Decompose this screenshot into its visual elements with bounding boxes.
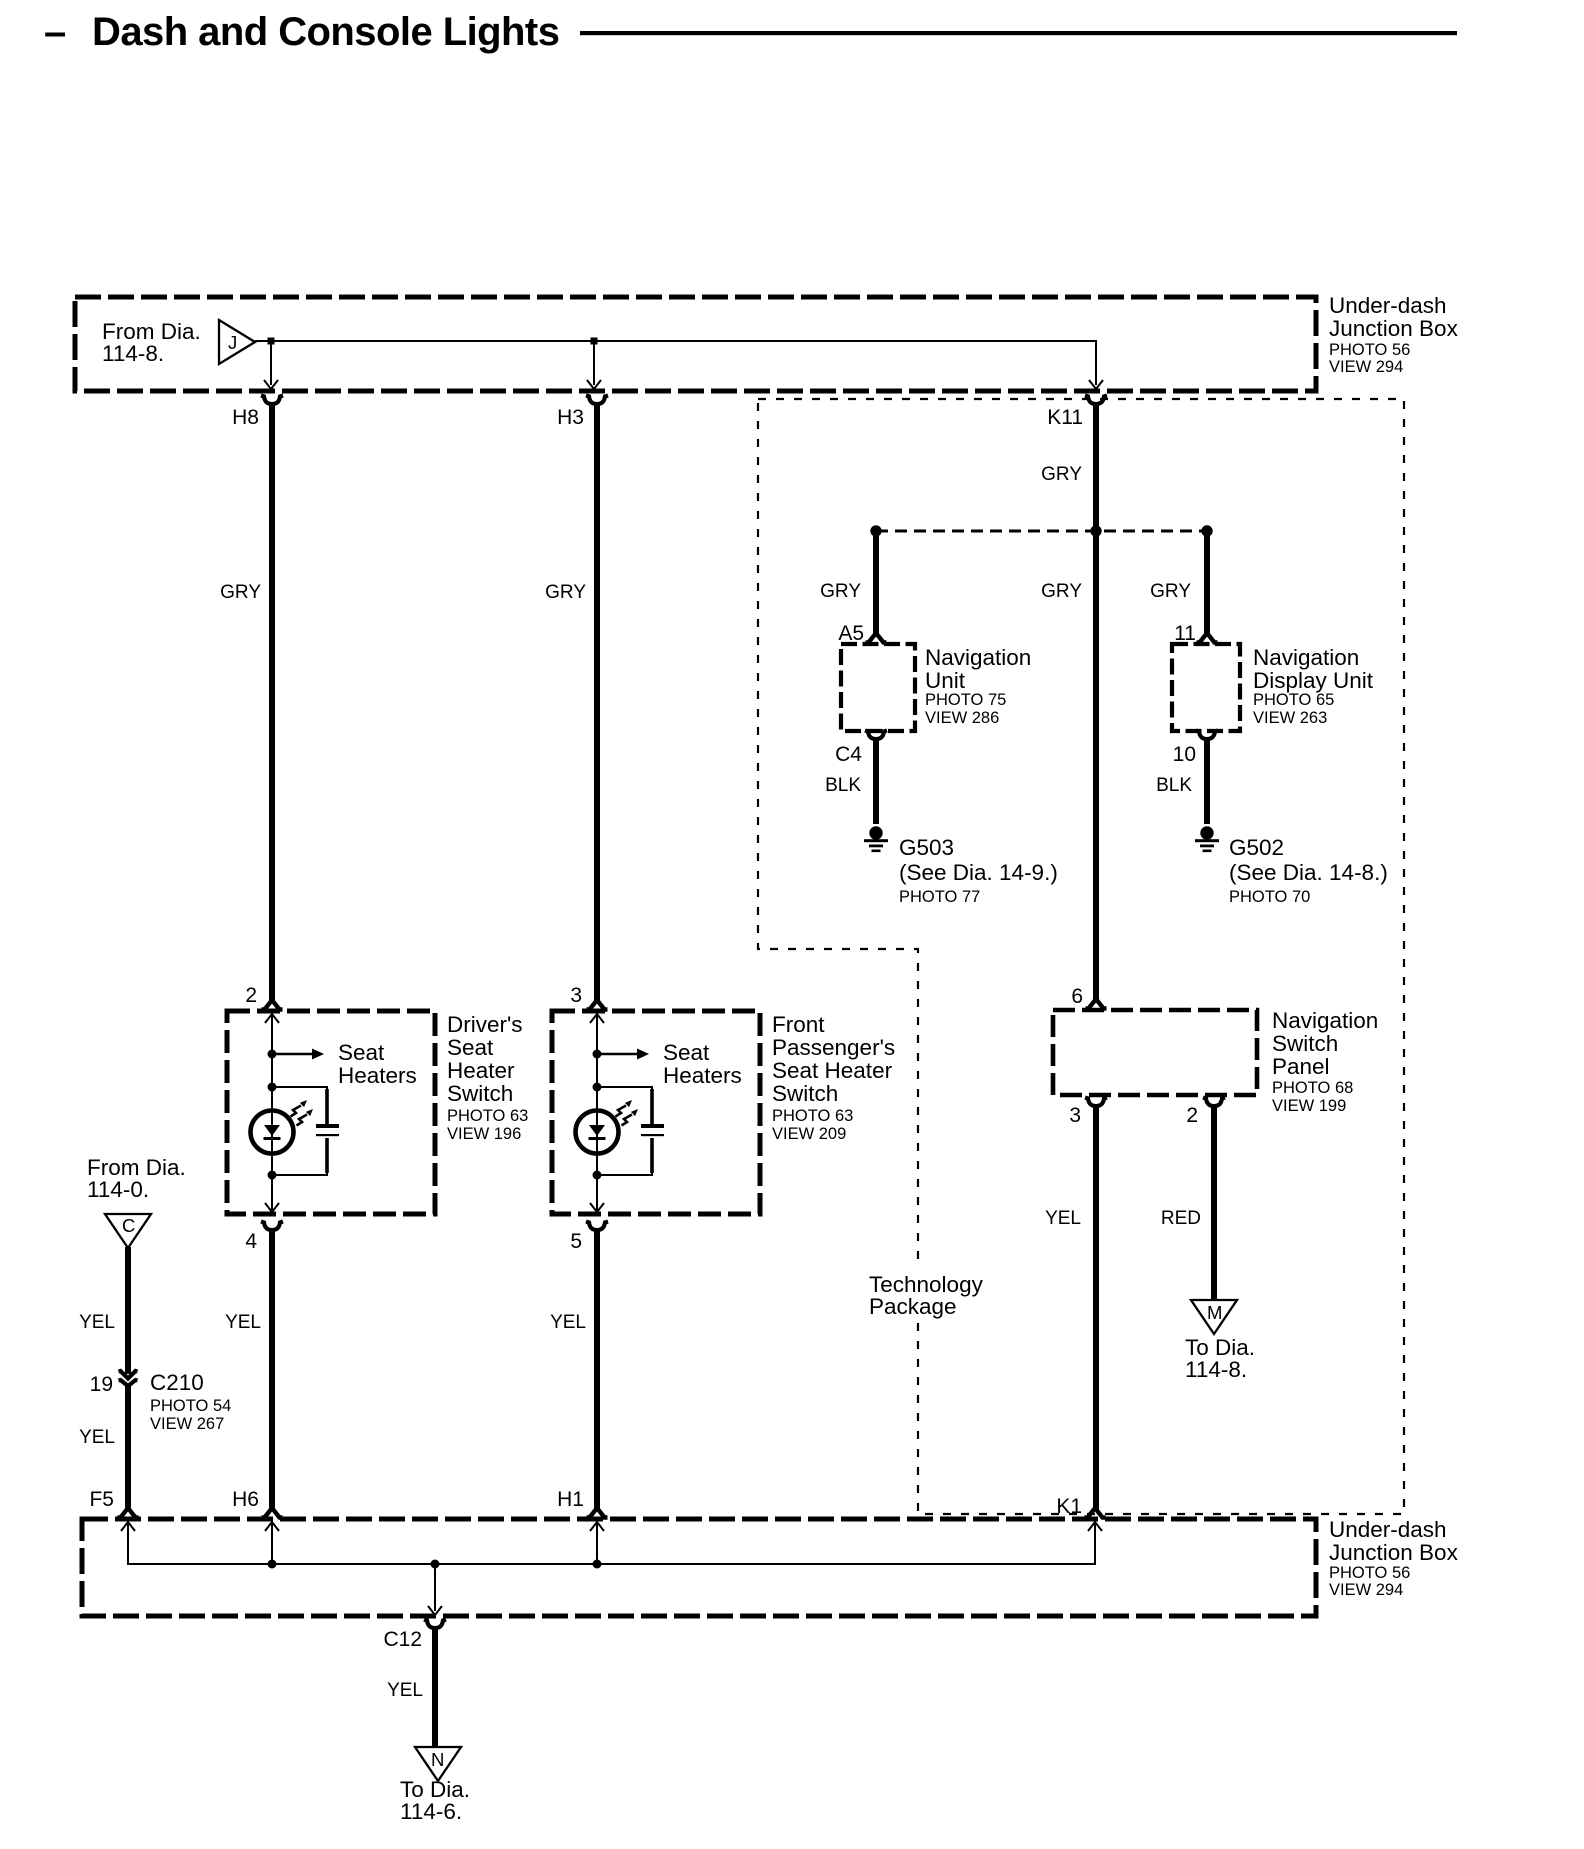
svg-text:Front: Front	[772, 1012, 825, 1037]
svg-text:Navigation: Navigation	[1253, 645, 1359, 670]
svg-text:PHOTO 75: PHOTO 75	[925, 691, 1006, 709]
svg-text:VIEW 199: VIEW 199	[1272, 1097, 1346, 1115]
arrow down at C12	[428, 1606, 442, 1615]
svg-text:114-8.: 114-8.	[1185, 1357, 1247, 1382]
arrow into H3	[587, 380, 601, 389]
svg-text:YEL: YEL	[225, 1312, 261, 1333]
arrows up at F5 H6 H1 K1	[121, 1522, 135, 1531]
wire YEL from C12	[432, 1627, 438, 1747]
navigation switch panel box	[1053, 1010, 1257, 1095]
svg-text:Package: Package	[869, 1294, 957, 1319]
arrow inside switch (up)	[265, 1014, 279, 1023]
indicator LED	[251, 1111, 294, 1154]
connector male into bottom junction box	[587, 1508, 608, 1518]
wire C12 drop	[434, 1564, 436, 1611]
svg-text:C: C	[122, 1215, 135, 1236]
capacitor C	[316, 1124, 339, 1128]
wire BLK from pin 10	[1204, 738, 1210, 824]
connector triangle J	[219, 320, 255, 364]
svg-text:11: 11	[1174, 622, 1196, 645]
LED emission arrows	[616, 1100, 633, 1117]
arrow into H8	[264, 380, 278, 389]
svg-text:(See Dia. 14-8.): (See Dia. 14-8.)	[1229, 860, 1388, 885]
svg-text:C210: C210	[150, 1370, 204, 1395]
svg-text:C4: C4	[835, 743, 862, 766]
svg-text:PHOTO 77: PHOTO 77	[899, 888, 980, 906]
arrow into K11	[1089, 380, 1103, 389]
connector K1 male into bottom junction box	[1085, 1508, 1106, 1518]
svg-text:Junction Box: Junction Box	[1329, 1540, 1459, 1565]
technology package boundary	[758, 399, 1404, 1514]
wire RED from pin 2	[1211, 1105, 1217, 1300]
node junction dot H8 drop	[268, 338, 275, 345]
wire from J (bus inside top junction box)	[255, 341, 1096, 385]
node dot 11 branch	[1201, 525, 1212, 536]
wire drop to H8	[270, 341, 272, 385]
label To Dia. 114-8.	[1185, 1335, 1255, 1382]
svg-text:PHOTO 68: PHOTO 68	[1272, 1079, 1353, 1097]
svg-text:Unit: Unit	[925, 668, 966, 693]
connector triangle M	[1191, 1300, 1237, 1334]
connector pin 10 (female) below navigation display unit	[1196, 731, 1218, 740]
wire dashed branch GRY	[876, 530, 1207, 533]
arrow out bottom of switch	[590, 1203, 604, 1212]
svg-text:Under-dash: Under-dash	[1329, 293, 1447, 318]
svg-text:19: 19	[90, 1373, 113, 1396]
connector pin male into seat heater switch	[587, 1000, 608, 1010]
label navigation switch panel	[1272, 1008, 1378, 1115]
svg-text:J: J	[228, 332, 237, 353]
connector triangle N	[415, 1747, 461, 1781]
label To Dia. 114-6.	[400, 1777, 470, 1824]
wire H3 GRY	[594, 403, 600, 1000]
seat heater switch box (Driver's)	[227, 1011, 435, 1214]
svg-text:VIEW 196: VIEW 196	[447, 1125, 521, 1143]
wire GRY to A5	[873, 531, 879, 637]
connector pin 5 (female)	[586, 1222, 608, 1231]
svg-text:(See Dia. 14-9.): (See Dia. 14-9.)	[899, 860, 1058, 885]
svg-text:Dash and Console Lights: Dash and Console Lights	[92, 10, 559, 54]
label From Dia. 114-0.	[87, 1155, 186, 1202]
navigation display unit box	[1172, 644, 1240, 731]
arrow to seat heaters	[272, 1053, 313, 1056]
svg-text:Navigation: Navigation	[1272, 1008, 1378, 1033]
connector pin 2 (female) below panel	[1203, 1098, 1225, 1107]
svg-text:Switch: Switch	[447, 1081, 513, 1106]
svg-text:VIEW 267: VIEW 267	[150, 1415, 224, 1433]
svg-text:Display Unit: Display Unit	[1253, 668, 1374, 693]
svg-text:PHOTO 63: PHOTO 63	[772, 1107, 853, 1125]
svg-text:Under-dash: Under-dash	[1329, 1517, 1447, 1542]
wire YEL lower	[125, 1385, 131, 1510]
svg-text:2: 2	[1186, 1104, 1198, 1127]
label seat heaters	[663, 1040, 742, 1088]
bus wire inside bottom junction box	[128, 1523, 1095, 1564]
svg-text:YEL: YEL	[79, 1312, 115, 1333]
svg-text:–: –	[44, 10, 66, 54]
svg-text:4: 4	[245, 1230, 257, 1253]
connector pin 4 (female)	[261, 1222, 283, 1231]
arrow to seat heaters	[597, 1053, 638, 1056]
connector H8 (female)	[261, 396, 283, 405]
wire YEL down	[269, 1229, 275, 1510]
node dot (LED branch top)	[593, 1083, 602, 1092]
svg-text:G503: G503	[899, 835, 954, 860]
label technology package (with mask)	[863, 1265, 985, 1320]
svg-text:Driver's: Driver's	[447, 1012, 523, 1037]
svg-text:H3: H3	[557, 406, 584, 429]
svg-text:GRY: GRY	[1150, 581, 1191, 602]
wire BLK from C4	[873, 738, 879, 824]
svg-text:YEL: YEL	[550, 1312, 586, 1333]
label From Dia. 114-8.	[102, 319, 201, 366]
seat heater switch box (Front)	[552, 1011, 760, 1214]
svg-text:H1: H1	[557, 1488, 584, 1511]
arrow inside switch (up)	[590, 1014, 604, 1023]
capacitor C	[641, 1124, 664, 1128]
svg-text:Switch: Switch	[772, 1081, 838, 1106]
label under-dash junction box (bottom)	[1329, 1517, 1459, 1599]
wire H1 drop	[596, 1523, 598, 1564]
svg-text:F5: F5	[89, 1488, 114, 1511]
connector pin C4 (female) below navigation unit	[865, 731, 887, 740]
svg-text:Seat Heater: Seat Heater	[772, 1058, 893, 1083]
svg-text:YEL: YEL	[1045, 1208, 1081, 1229]
arrow out bottom of switch	[265, 1203, 279, 1212]
node dot H1 bus	[593, 1560, 602, 1569]
svg-text:BLK: BLK	[825, 775, 861, 796]
wire H8 GRY	[269, 403, 275, 1000]
svg-text:5: 5	[570, 1230, 582, 1253]
navigation unit box	[841, 644, 915, 731]
under-dash junction box (top)	[75, 297, 1316, 391]
svg-text:VIEW 263: VIEW 263	[1253, 709, 1327, 727]
svg-text:Seat: Seat	[663, 1040, 710, 1065]
svg-text:PHOTO 54: PHOTO 54	[150, 1397, 231, 1415]
svg-text:114-0.: 114-0.	[87, 1177, 149, 1202]
svg-text:GRY: GRY	[820, 581, 861, 602]
node dot C12 bus	[431, 1560, 440, 1569]
svg-text:BLK: BLK	[1156, 775, 1192, 796]
svg-text:114-6.: 114-6.	[400, 1799, 462, 1824]
connector triangle C	[105, 1214, 151, 1248]
svg-text:10: 10	[1173, 743, 1196, 766]
svg-text:Panel: Panel	[1272, 1054, 1330, 1079]
node dot (LED branch bottom)	[593, 1171, 602, 1180]
svg-text:G502: G502	[1229, 835, 1284, 860]
node dot A5 branch	[870, 525, 881, 536]
node dot (seat heaters tap)	[268, 1050, 277, 1059]
svg-text:H8: H8	[232, 406, 259, 429]
svg-text:VIEW 294: VIEW 294	[1329, 1581, 1403, 1599]
under-dash junction box (bottom)	[82, 1519, 1316, 1616]
svg-text:GRY: GRY	[1041, 464, 1082, 485]
label under-dash junction box (top)	[1329, 293, 1459, 376]
svg-text:VIEW 209: VIEW 209	[772, 1125, 846, 1143]
svg-text:Seat: Seat	[447, 1035, 494, 1060]
connector pin 11 male into navigation display unit	[1197, 633, 1218, 643]
svg-text:N: N	[431, 1749, 444, 1770]
wire inside switch	[596, 1014, 598, 1210]
svg-text:114-8.: 114-8.	[102, 341, 164, 366]
svg-text:VIEW 286: VIEW 286	[925, 709, 999, 727]
svg-text:3: 3	[1069, 1104, 1081, 1127]
svg-text:Junction Box: Junction Box	[1329, 316, 1459, 341]
wire YEL down	[594, 1229, 600, 1510]
connector K11 (female)	[1085, 396, 1107, 405]
node dot (LED branch bottom)	[268, 1171, 277, 1180]
svg-text:Heaters: Heaters	[663, 1063, 742, 1088]
capacitor branch wires	[597, 1087, 652, 1122]
svg-text:3: 3	[570, 984, 582, 1007]
svg-text:C12: C12	[383, 1628, 422, 1651]
svg-text:Passenger's: Passenger's	[772, 1035, 895, 1060]
wire YEL from pin 3 to K1	[1093, 1105, 1099, 1510]
node dot K11 branch	[1090, 525, 1101, 536]
svg-text:K1: K1	[1056, 1495, 1082, 1518]
capacitor branch wires	[272, 1087, 327, 1122]
svg-text:K11: K11	[1047, 406, 1083, 429]
svg-text:YEL: YEL	[387, 1680, 423, 1701]
label ground G503	[899, 835, 1058, 906]
label Driver's seat heater switch	[447, 1012, 528, 1143]
svg-text:GRY: GRY	[545, 582, 586, 603]
svg-text:M: M	[1207, 1302, 1222, 1323]
label C210	[150, 1370, 231, 1433]
node dot (LED branch top)	[268, 1083, 277, 1092]
node junction dot H3 drop	[591, 338, 598, 345]
connector pin 6 male into navigation switch panel	[1086, 999, 1107, 1009]
connector C210 inline	[119, 1371, 138, 1386]
svg-text:PHOTO 63: PHOTO 63	[447, 1107, 528, 1125]
connector H3 (female)	[586, 396, 608, 405]
svg-text:PHOTO 56: PHOTO 56	[1329, 1564, 1410, 1582]
svg-text:Seat: Seat	[338, 1040, 385, 1065]
svg-text:Heaters: Heaters	[338, 1063, 417, 1088]
svg-text:6: 6	[1071, 985, 1083, 1008]
label seat heaters	[338, 1040, 417, 1088]
ground G503	[864, 826, 888, 852]
label navigation unit	[925, 645, 1031, 727]
indicator LED	[576, 1111, 619, 1154]
wire K11 GRY	[1093, 403, 1099, 1000]
svg-text:RED: RED	[1161, 1208, 1201, 1229]
svg-text:Navigation: Navigation	[925, 645, 1031, 670]
label ground G502	[1229, 835, 1388, 906]
svg-text:GRY: GRY	[1041, 581, 1082, 602]
connector pin A5 male into navigation unit	[866, 633, 887, 643]
svg-text:YEL: YEL	[79, 1427, 115, 1448]
svg-text:H6: H6	[232, 1488, 259, 1511]
LED emission arrows	[291, 1100, 308, 1117]
connector F5 male into bottom junction box	[118, 1508, 139, 1518]
connector C12 (female)	[424, 1620, 446, 1629]
label Front seat heater switch	[772, 1012, 895, 1143]
connector pin male into seat heater switch	[262, 1000, 283, 1010]
connector pin 3 (female) below panel	[1085, 1098, 1107, 1107]
svg-text:PHOTO 70: PHOTO 70	[1229, 888, 1310, 906]
svg-text:VIEW 294: VIEW 294	[1329, 358, 1403, 376]
svg-text:2: 2	[245, 984, 257, 1007]
connector male into bottom junction box	[262, 1508, 283, 1518]
wire H6 drop	[271, 1523, 273, 1564]
wire GRY to pin 11	[1204, 531, 1210, 637]
svg-text:A5: A5	[838, 622, 864, 645]
svg-text:GRY: GRY	[220, 582, 261, 603]
wire inside switch	[271, 1014, 273, 1210]
svg-text:Heater: Heater	[447, 1058, 515, 1083]
wire drop to H3	[593, 341, 595, 385]
svg-text:PHOTO 56: PHOTO 56	[1329, 341, 1410, 359]
ground G502	[1195, 826, 1219, 852]
label navigation display unit	[1253, 645, 1374, 727]
node dot H6 bus	[268, 1560, 277, 1569]
node dot (seat heaters tap)	[593, 1050, 602, 1059]
wire YEL from C	[125, 1247, 131, 1374]
svg-text:Switch: Switch	[1272, 1031, 1338, 1056]
svg-text:PHOTO 65: PHOTO 65	[1253, 691, 1334, 709]
title rule	[580, 31, 1457, 35]
